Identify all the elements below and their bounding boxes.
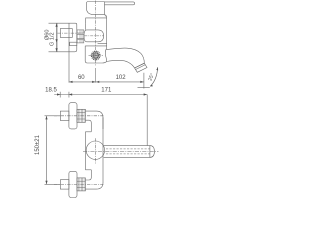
svg-text:102: 102 (116, 75, 127, 81)
bottom view: lever (104, 146, 155, 158)
side view: handle collar step (105, 15, 106, 18)
wall supply pipe (60, 180, 69, 189)
dim 60 (69, 81, 96, 83)
escutcheon (69, 171, 77, 197)
side view: aerator (135, 63, 147, 72)
svg-text:G 1/2: G 1/2 (49, 32, 55, 46)
elbow (85, 183, 103, 190)
side view: wall plate box (49, 23, 77, 52)
side view: spout root arc (105, 48, 106, 61)
bottom view: lever hidden lines (106, 148, 150, 150)
escutcheon (69, 103, 77, 129)
inlet centerline (54, 115, 104, 117)
side view: collar left edge lower (85, 23, 87, 30)
side view: cartridge column right edge (106, 18, 108, 48)
bottom view: circle vertical centerline (94, 138, 96, 163)
side view: vertical centerline (95, 1, 97, 66)
ext line outlet center (143, 73, 145, 89)
union nut (77, 178, 85, 191)
side view: screw slot (94, 55, 97, 57)
svg-text:18.5: 18.5 (45, 88, 57, 94)
side view: screw middle circle (93, 53, 99, 59)
side view: handle cap (86, 2, 105, 15)
side view: union nut thread (77, 30, 84, 33)
side view: screw inner circle (94, 54, 98, 58)
bottom view: valve circle (86, 141, 104, 159)
svg-text:171: 171 (101, 87, 112, 93)
side view: spout (106, 48, 144, 68)
side view: pivot axis centerline (84, 35, 104, 37)
bottom view: body top face (85, 131, 91, 133)
union nut (77, 109, 85, 122)
dim Ø60 line (56, 23, 58, 52)
projection line to lever tip (146, 95, 148, 146)
side view: lower housing (85, 46, 107, 63)
side view: nipple centerline (58, 32, 85, 34)
dim 102 (96, 81, 144, 83)
inlet centerline (54, 183, 104, 185)
svg-text:60: 60 (78, 75, 85, 81)
side view: collar (86, 18, 107, 23)
ext ticks (59, 92, 61, 98)
angle ref line (138, 87, 150, 89)
side view: screw knurled ring (99, 55, 100, 57)
svg-text:150±21: 150±21 (35, 134, 41, 155)
side view: handle pivot housing pill (84, 30, 104, 42)
side view: screw centerline horizontal (89, 55, 104, 57)
bottom view: body sides (84, 132, 86, 170)
wall supply pipe (60, 111, 69, 120)
side view: handle lever (105, 2, 135, 5)
side view: escutcheon front hidden edge (68, 23, 70, 82)
bottom view: body bottom face (85, 169, 91, 171)
bottom view: main horizontal centerline (83, 150, 159, 152)
side view: spout end face (135, 63, 145, 68)
dim 18.5 and 171 line (54, 94, 147, 96)
angle arc (150, 67, 158, 86)
dim 150±21 (45, 115, 61, 117)
side view: valve seat rect (70, 42, 77, 46)
side view: G 1/2 nipple (60, 29, 72, 38)
elbow (85, 111, 103, 129)
side view: under-pill nut line (98, 43, 107, 45)
